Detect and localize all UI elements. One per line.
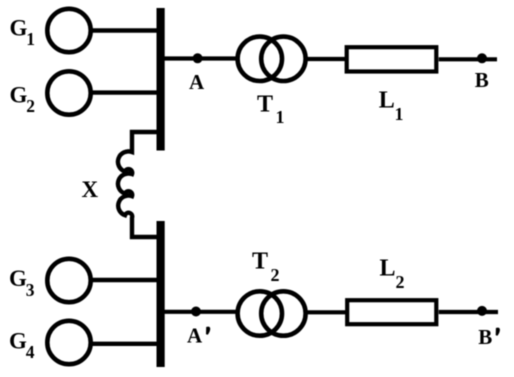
node B (475, 53, 489, 92)
svg-text:2: 2 (396, 272, 405, 292)
svg-text:4: 4 (26, 342, 35, 362)
svg-text:G: G (10, 16, 28, 41)
transformer T1 (238, 37, 306, 127)
top busbar (157, 8, 165, 151)
svg-text:L: L (380, 256, 396, 282)
wire L2 to B' (439, 310, 498, 314)
svg-text:3: 3 (26, 280, 35, 300)
transformer T2 (238, 249, 306, 336)
line L2 (347, 256, 436, 325)
svg-text:T: T (252, 249, 268, 275)
generator G1 (10, 9, 91, 52)
wire T1 to L1 (306, 57, 346, 61)
wire G4 to bottom busbar (90, 342, 160, 346)
wire G2 to top busbar (90, 90, 160, 94)
svg-text:A: A (189, 70, 205, 94)
node B' (477, 306, 500, 349)
generator G4 (9, 321, 91, 364)
svg-text:2: 2 (26, 96, 35, 116)
wire busbar to T1 (165, 56, 239, 60)
wire G3 to bottom busbar (90, 278, 160, 282)
wire T2 to L2 (306, 310, 347, 314)
wire L1 to B (439, 57, 497, 61)
svg-text:L: L (379, 88, 395, 114)
generator G2 (10, 71, 91, 116)
svg-text:2: 2 (271, 265, 280, 285)
svg-text:1: 1 (395, 104, 404, 124)
svg-text:1: 1 (26, 29, 35, 49)
node A (189, 53, 205, 94)
bottom busbar (157, 221, 165, 367)
svg-text:G: G (9, 329, 27, 354)
line L1 (347, 47, 437, 124)
svg-text:T: T (257, 92, 273, 118)
svg-text:B: B (478, 325, 492, 349)
wire G1 to top busbar (90, 28, 160, 32)
svg-text:B: B (475, 68, 489, 92)
node A' (187, 307, 210, 348)
svg-text:G: G (9, 266, 27, 291)
reactor X (82, 132, 161, 237)
generator G3 (9, 259, 91, 302)
svg-text:A: A (187, 324, 203, 348)
svg-text:1: 1 (276, 107, 285, 127)
wire busbar to T2 (165, 310, 239, 314)
svg-text:G: G (10, 83, 28, 108)
svg-text:X: X (82, 177, 99, 202)
